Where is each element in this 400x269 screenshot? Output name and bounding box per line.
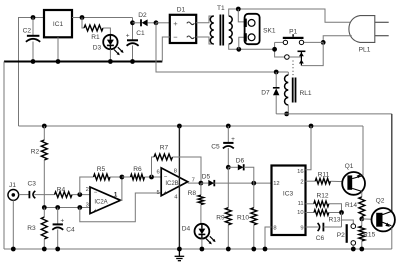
svg-text:R6: R6: [133, 166, 142, 173]
svg-text:2: 2: [300, 180, 303, 186]
wire bridge ac1: [196, 16, 214, 23]
wire unregulated + to relay: [156, 23, 288, 72]
svg-text:10: 10: [297, 210, 303, 216]
wire IC1 ground pin: [57, 37, 59, 61]
svg-text:−: −: [164, 175, 168, 181]
wire IC2B output: [188, 182, 201, 184]
node D2 cathode: [130, 20, 135, 25]
capacitor C5: [211, 126, 235, 167]
bridge rectifier D1: [170, 7, 196, 43]
wire Q2 collector feed: [391, 114, 393, 211]
wire bridge ac2: [196, 37, 214, 44]
transistor Q2: [372, 197, 395, 231]
svg-text:P2: P2: [337, 232, 345, 239]
node R10-gnd: [251, 247, 256, 252]
IC3 box: [272, 166, 306, 236]
node R1 branch: [80, 15, 85, 20]
svg-text:16: 16: [297, 169, 303, 175]
node P1 right node: [321, 40, 326, 45]
node IC3-8-gnd: [263, 247, 268, 252]
node switch left node: [272, 47, 277, 52]
relay coil RL1: [285, 72, 312, 114]
svg-text:R8: R8: [188, 190, 197, 197]
wire Q2 base: [362, 218, 372, 220]
svg-text:3: 3: [86, 202, 89, 208]
node C2 top: [31, 15, 36, 20]
node R9-gnd: [226, 247, 231, 252]
node pin3 branch: [77, 205, 82, 210]
wire to P2: [342, 220, 354, 224]
svg-text:PL1: PL1: [359, 47, 371, 54]
svg-text:D1: D1: [177, 7, 186, 14]
svg-text:C2: C2: [23, 28, 32, 35]
svg-text:C3: C3: [27, 181, 36, 188]
svg-text:Q1: Q1: [345, 163, 354, 170]
resistor R10: [237, 183, 257, 249]
wire plug neutral: [323, 36, 352, 43]
svg-text:D3: D3: [93, 45, 102, 52]
svg-text:−: −: [173, 33, 178, 42]
transistor Q1: [342, 163, 365, 195]
diode D6: [228, 157, 254, 183]
node Q2 base node: [359, 217, 364, 222]
wire Q1 emitter: [361, 191, 363, 197]
svg-text:R15: R15: [363, 232, 375, 239]
wire mains live run: [229, 9, 352, 22]
node P2-gnd: [351, 247, 356, 252]
svg-text:2: 2: [86, 187, 89, 193]
wire IC3 pin8 ground: [265, 227, 272, 249]
svg-text:R1: R1: [91, 34, 100, 41]
svg-text:+: +: [126, 33, 130, 40]
svg-text:11: 11: [298, 201, 304, 207]
pushbutton P2: [337, 224, 356, 249]
node C5/D6 node: [226, 165, 231, 170]
node unregulated +: [154, 20, 159, 25]
node D3-gnd: [108, 59, 113, 64]
svg-text:+: +: [164, 190, 168, 196]
svg-text:R2: R2: [31, 149, 40, 156]
node R10/D6 node: [251, 181, 256, 186]
node R12/R13 node: [339, 210, 344, 215]
wire IC2 supply/gnd line: [178, 126, 180, 249]
resistor R8: [188, 183, 204, 224]
op-amp IC2B: [156, 168, 194, 201]
wire: [132, 18, 134, 23]
svg-text:D6: D6: [236, 157, 245, 164]
svg-text:1: 1: [114, 191, 118, 198]
svg-text:R11: R11: [318, 172, 330, 179]
resistor R7: [152, 145, 202, 184]
node IC1-gnd: [56, 59, 61, 64]
regulator IC1: [44, 10, 72, 37]
resistor R2: [31, 126, 48, 208]
svg-text:−: −: [94, 190, 98, 196]
svg-text:T1: T1: [217, 5, 225, 12]
resistor R1: [82, 18, 110, 42]
svg-text:IC3: IC3: [283, 191, 294, 198]
resistor R14: [345, 197, 365, 219]
svg-text:R3: R3: [27, 225, 36, 232]
node R2 top: [42, 124, 47, 129]
node IC3 power: [309, 124, 314, 129]
node J1-gnd: [11, 247, 16, 252]
node bias node: [42, 205, 47, 210]
node IC2 power: [177, 124, 182, 129]
node C2-gnd: [31, 59, 36, 64]
capacitor C6: [306, 223, 342, 242]
capacitor C1: [126, 23, 145, 62]
svg-text:IC2B: IC2B: [165, 181, 178, 187]
wire R12R13 node down: [341, 213, 343, 228]
node C1-gnd: [130, 59, 135, 64]
resistor R15: [359, 219, 376, 249]
node C5 top: [226, 124, 231, 129]
LED D4: [182, 224, 216, 249]
svg-text:8: 8: [174, 169, 177, 175]
node sk1 top branch: [236, 7, 241, 12]
wire IC2A noninv node: [44, 207, 90, 209]
resistor R13: [306, 210, 342, 224]
resistor R5: [80, 166, 122, 200]
node C4-gnd: [55, 247, 60, 252]
svg-text:+: +: [173, 19, 178, 28]
node relay + node: [274, 70, 279, 75]
plug PL1: [349, 16, 389, 54]
node R5/R6 node: [120, 175, 125, 180]
ground bus (lower): [4, 248, 392, 250]
capacitor C4: [52, 208, 75, 250]
ground bus (upper): [4, 62, 162, 250]
node C4 top: [55, 205, 60, 210]
resistor R11: [306, 172, 343, 185]
svg-text:+: +: [60, 218, 64, 225]
wire to socket bottom: [239, 37, 248, 49]
capacitor C2: [23, 18, 41, 62]
node gnd-gnd: [177, 247, 182, 252]
svg-text:D4: D4: [182, 226, 191, 233]
svg-text:R12: R12: [316, 193, 328, 200]
svg-text:+: +: [94, 209, 98, 215]
socket SK1: [244, 14, 276, 44]
LED D3: [93, 35, 124, 62]
ground: [175, 249, 185, 261]
svg-text:C4: C4: [66, 227, 75, 234]
wire relay to Q2 collector: [276, 113, 392, 115]
svg-text:8: 8: [273, 225, 276, 231]
svg-text:R7: R7: [160, 145, 169, 152]
wire Q2 emitter to bus: [391, 228, 393, 249]
node relay bottom node: [284, 112, 289, 117]
wire bridge - to ground: [162, 37, 170, 62]
svg-text:C5: C5: [211, 144, 220, 151]
svg-text:R5: R5: [97, 166, 106, 173]
resistor R4: [55, 187, 91, 198]
wire IC3 pin16 supply: [306, 126, 312, 170]
svg-text:D5: D5: [202, 174, 211, 181]
resistor R9: [216, 208, 231, 249]
svg-text:12: 12: [273, 181, 279, 187]
svg-text:IC2A: IC2A: [94, 200, 107, 206]
svg-text:IC1: IC1: [53, 21, 64, 28]
svg-text:Q2: Q2: [376, 197, 385, 204]
capacitor C3: [27, 181, 54, 199]
node R15-gnd: [359, 247, 364, 252]
node pin6 node: [149, 175, 154, 180]
wire IC1 input run: [72, 17, 133, 19]
resistor R3: [27, 208, 47, 250]
svg-text:J1: J1: [9, 182, 16, 189]
node IC2B out node: [199, 181, 204, 186]
wire +V rail: [19, 125, 364, 127]
transformer T1: [210, 5, 232, 46]
node sk1 bottom branch: [236, 47, 241, 52]
svg-text:R10: R10: [237, 215, 249, 222]
svg-text:5: 5: [156, 190, 159, 196]
svg-text:RL1: RL1: [299, 90, 311, 97]
svg-text:R9: R9: [216, 215, 225, 222]
wire to bridge +: [156, 22, 170, 24]
svg-text:SK1: SK1: [263, 28, 276, 35]
wire contact to P1 right: [301, 42, 323, 65]
wire mains neutral run: [229, 44, 275, 49]
svg-text:6: 6: [156, 170, 159, 176]
diode D2: [133, 12, 157, 26]
pushbutton P1: [275, 29, 324, 45]
resistor R6: [122, 166, 161, 180]
diode D5: [201, 174, 272, 187]
jack J1: [8, 182, 29, 249]
svg-text:D2: D2: [138, 12, 147, 19]
linkage (dotted): [292, 61, 294, 76]
wire rail to Q1 collector: [362, 126, 364, 176]
resistor R12: [306, 193, 342, 213]
node IC2A inv input: [77, 192, 82, 197]
svg-text:R13: R13: [328, 217, 340, 224]
svg-text:D7: D7: [261, 90, 270, 97]
wire C5 node down to R9: [227, 167, 229, 207]
svg-text:C6: C6: [316, 235, 325, 242]
svg-text:R14: R14: [345, 202, 357, 209]
svg-text:R4: R4: [57, 187, 66, 194]
wire to socket top: [238, 9, 248, 22]
svg-text:P1: P1: [289, 29, 297, 36]
svg-text:+: +: [231, 136, 235, 143]
op-amp IC2A: [86, 187, 121, 215]
wire +V output run (left): [19, 18, 45, 127]
node D4-gnd: [200, 247, 205, 252]
relay contact RL1/1: [285, 51, 306, 65]
svg-text:C1: C1: [136, 30, 145, 37]
node R3-gnd: [42, 247, 47, 252]
svg-text:9: 9: [300, 225, 303, 231]
svg-text:7: 7: [192, 177, 195, 183]
diode D7: [261, 72, 279, 114]
wire bias to IC2B pin5: [80, 193, 161, 222]
wire P1 left leg: [275, 42, 285, 57]
